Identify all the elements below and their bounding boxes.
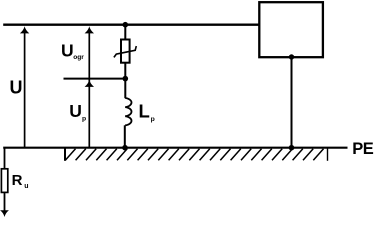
earth electrode arrow [0, 210, 9, 217]
varistor variability arrow [114, 46, 136, 57]
wire: earth electrode lead lower [4, 192, 6, 211]
junction: box bottom [289, 54, 294, 59]
junction: earthing conductor at PE rail [289, 145, 295, 151]
varistor / SPD body [121, 40, 130, 63]
wire: inductor bottom lead [124, 125, 126, 147]
wire: earth electrode lead upper [4, 148, 6, 169]
node line: limited-voltage node tick [64, 78, 127, 80]
svg-text:p: p [82, 116, 86, 123]
svg-text:U: U [61, 41, 74, 61]
junction: varistor bottom node [123, 76, 129, 82]
ground line PE rail [3, 147, 347, 149]
device box (protected equipment) [259, 2, 323, 57]
svg-text:R: R [12, 172, 23, 189]
voltage arrow U (head) [20, 26, 29, 33]
inductor Lp coil [125, 98, 131, 125]
earth hatching left boundary tick [64, 148, 66, 161]
earth hatching strokes [65, 149, 323, 161]
voltage arrow Uogr (head) [85, 26, 94, 33]
svg-text:u: u [24, 183, 28, 190]
resistor Ru body [1, 169, 7, 193]
svg-text:U: U [10, 78, 23, 98]
svg-text:ogr: ogr [73, 54, 84, 61]
voltage arrow U (line) [24, 30, 26, 148]
svg-text:L: L [139, 101, 150, 122]
wire: top phase conductor [3, 24, 258, 26]
wire: varistor branch upper [124, 25, 126, 40]
svg-text:U: U [69, 101, 82, 121]
junction: inductor at PE rail [122, 145, 128, 151]
junction: varistor top on phase wire [123, 22, 129, 28]
earth hatching right boundary tick [327, 148, 329, 161]
voltage arrow Up (head) [85, 80, 94, 87]
svg-text:p: p [151, 116, 155, 123]
svg-text:PE: PE [352, 140, 374, 158]
wire: device earthing conductor [291, 57, 293, 148]
voltage arrow Uogr/Up shared line [88, 30, 90, 148]
wire: varistor bottom to node [124, 63, 126, 98]
